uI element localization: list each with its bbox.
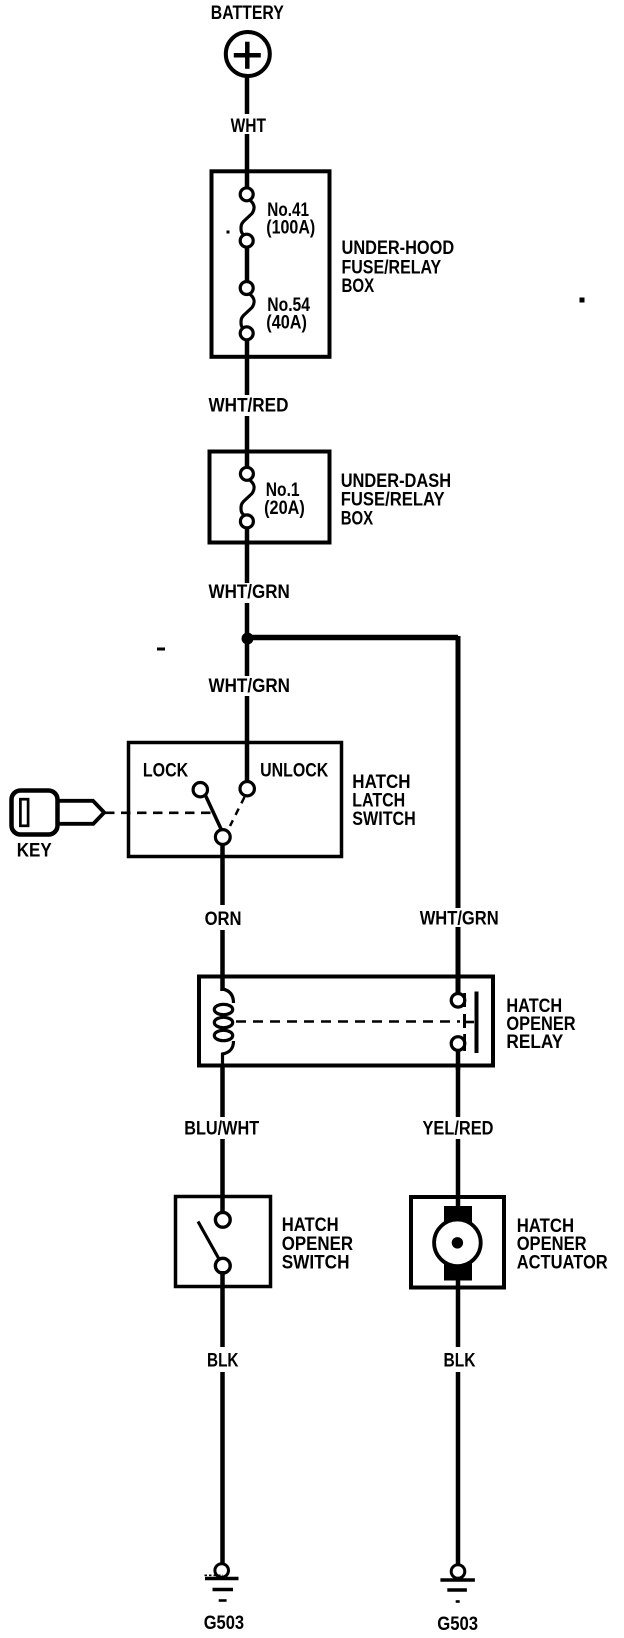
hatch latch switch box [129, 743, 342, 857]
wire fuse No.1 to junction node [245, 526, 250, 783]
svg-text:WHT/GRN: WHT/GRN [420, 909, 499, 930]
under-dash fuse/relay box [210, 452, 330, 543]
wire WHT/GRN right branch to relay [456, 636, 461, 995]
svg-text:BOX: BOX [342, 276, 375, 297]
wire YEL/RED relay to actuator [456, 1064, 461, 1210]
label WHT/GRN upper [204, 582, 294, 603]
label UNDER-DASH FUSE/RELAY BOX [341, 471, 451, 530]
svg-text:SWITCH: SWITCH [352, 809, 416, 830]
ground G503 right [440, 1565, 475, 1602]
fuse No.41 (100A) [240, 188, 254, 247]
label BATTERY [211, 3, 284, 24]
svg-text:RELAY: RELAY [506, 1032, 563, 1053]
relay contact terminal bottom [451, 1034, 465, 1070]
label BLK left [203, 1347, 243, 1372]
label YEL/RED [419, 1117, 497, 1140]
switch lever dashed UNLOCK position [230, 797, 245, 826]
relay coil [214, 976, 233, 1066]
battery positive terminal symbol [226, 32, 270, 76]
relay mechanical dashed link [236, 1020, 460, 1023]
label HATCH OPENER SWITCH [282, 1215, 354, 1274]
scan speck inside under-hood box [227, 231, 230, 234]
hatch opener relay box [199, 977, 493, 1066]
wire WHT battery to under-hood fuse box [245, 76, 250, 190]
label fuse No.54 (40A) [266, 295, 310, 334]
junction node [242, 633, 254, 645]
scan speck left of junction [157, 648, 165, 651]
relay armature bar [465, 992, 477, 1054]
latch switch terminal LOCK [193, 783, 207, 797]
label G503 right [437, 1614, 478, 1635]
key mechanical dashed link [105, 811, 214, 814]
label HATCH LATCH SWITCH [352, 772, 416, 830]
wire fuse No.54 to under-dash fuse box [245, 337, 250, 469]
svg-text:BATTERY: BATTERY [211, 3, 284, 24]
svg-text:BOX: BOX [341, 509, 374, 530]
svg-text:BLU/WHT: BLU/WHT [184, 1119, 259, 1140]
fuse No.1 (20A) [240, 467, 254, 528]
label fuse No.1 (20A) [264, 480, 305, 519]
opener switch lever [198, 1222, 219, 1260]
svg-text:YEL/RED: YEL/RED [423, 1119, 494, 1140]
hatch opener actuator box [411, 1197, 504, 1288]
opener switch terminal bottom [215, 1258, 230, 1273]
wire between fuse No.41 and fuse No.54 [245, 246, 250, 284]
label UNDER-HOOD FUSE/RELAY BOX [342, 238, 455, 297]
svg-text:SWITCH: SWITCH [282, 1253, 350, 1274]
svg-text:WHT/GRN: WHT/GRN [209, 582, 290, 603]
opener switch terminal top [215, 1212, 230, 1227]
label HATCH OPENER ACTUATOR [517, 1216, 608, 1274]
svg-text:(20A): (20A) [264, 498, 305, 519]
svg-text:(40A): (40A) [266, 312, 307, 333]
wire branch horizontal [245, 635, 458, 641]
svg-text:BLK: BLK [444, 1351, 476, 1372]
label WHT [225, 114, 271, 137]
wire BLU/WHT relay to hatch opener switch [220, 1064, 225, 1215]
relay contact terminal top [451, 993, 465, 1007]
svg-text:(100A): (100A) [266, 218, 315, 239]
latch switch terminal UNLOCK [240, 782, 254, 796]
label WHT/RED [204, 395, 293, 417]
latch switch common terminal [215, 830, 230, 845]
fuse No.54 (40A) [240, 282, 254, 340]
svg-text:G503: G503 [204, 1613, 244, 1634]
svg-text:UNLOCK: UNLOCK [260, 760, 328, 781]
svg-text:WHT/RED: WHT/RED [209, 396, 289, 417]
label UNLOCK [260, 760, 328, 781]
under-hood fuse/relay box [212, 171, 330, 356]
hatch opener switch box [176, 1197, 271, 1287]
wire ORN latch switch to relay coil [220, 843, 225, 991]
label LOCK [143, 760, 189, 781]
label G503 left [204, 1613, 244, 1634]
label BLU/WHT [181, 1117, 263, 1140]
svg-text:BLK: BLK [207, 1351, 239, 1372]
label WHT/GRN lower [204, 676, 294, 697]
label HATCH OPENER RELAY [506, 996, 575, 1053]
key head [12, 791, 58, 835]
svg-text:LOCK: LOCK [143, 760, 189, 781]
label WHT/GRN right [416, 908, 503, 930]
wire BLK left to ground [220, 1271, 225, 1564]
label KEY [17, 840, 52, 861]
svg-text:HATCH: HATCH [282, 1215, 339, 1236]
actuator motor [434, 1206, 481, 1281]
scan speck right of under-hood box [580, 298, 585, 303]
label ORN [202, 905, 246, 930]
ground G503 left [205, 1564, 239, 1601]
svg-text:G503: G503 [437, 1614, 478, 1635]
svg-text:WHT/GRN: WHT/GRN [209, 676, 291, 697]
svg-text:ORN: ORN [205, 909, 242, 930]
wire BLK right to ground [456, 1276, 461, 1565]
key blade [59, 801, 104, 824]
svg-text:UNDER-HOOD: UNDER-HOOD [342, 238, 455, 259]
svg-text:ACTUATOR: ACTUATOR [517, 1253, 608, 1274]
label fuse No.41 (100A) [266, 200, 315, 239]
switch lever solid LOCK position [206, 796, 222, 831]
label BLK right [439, 1347, 479, 1372]
svg-text:WHT: WHT [231, 116, 267, 137]
svg-text:KEY: KEY [17, 840, 52, 861]
